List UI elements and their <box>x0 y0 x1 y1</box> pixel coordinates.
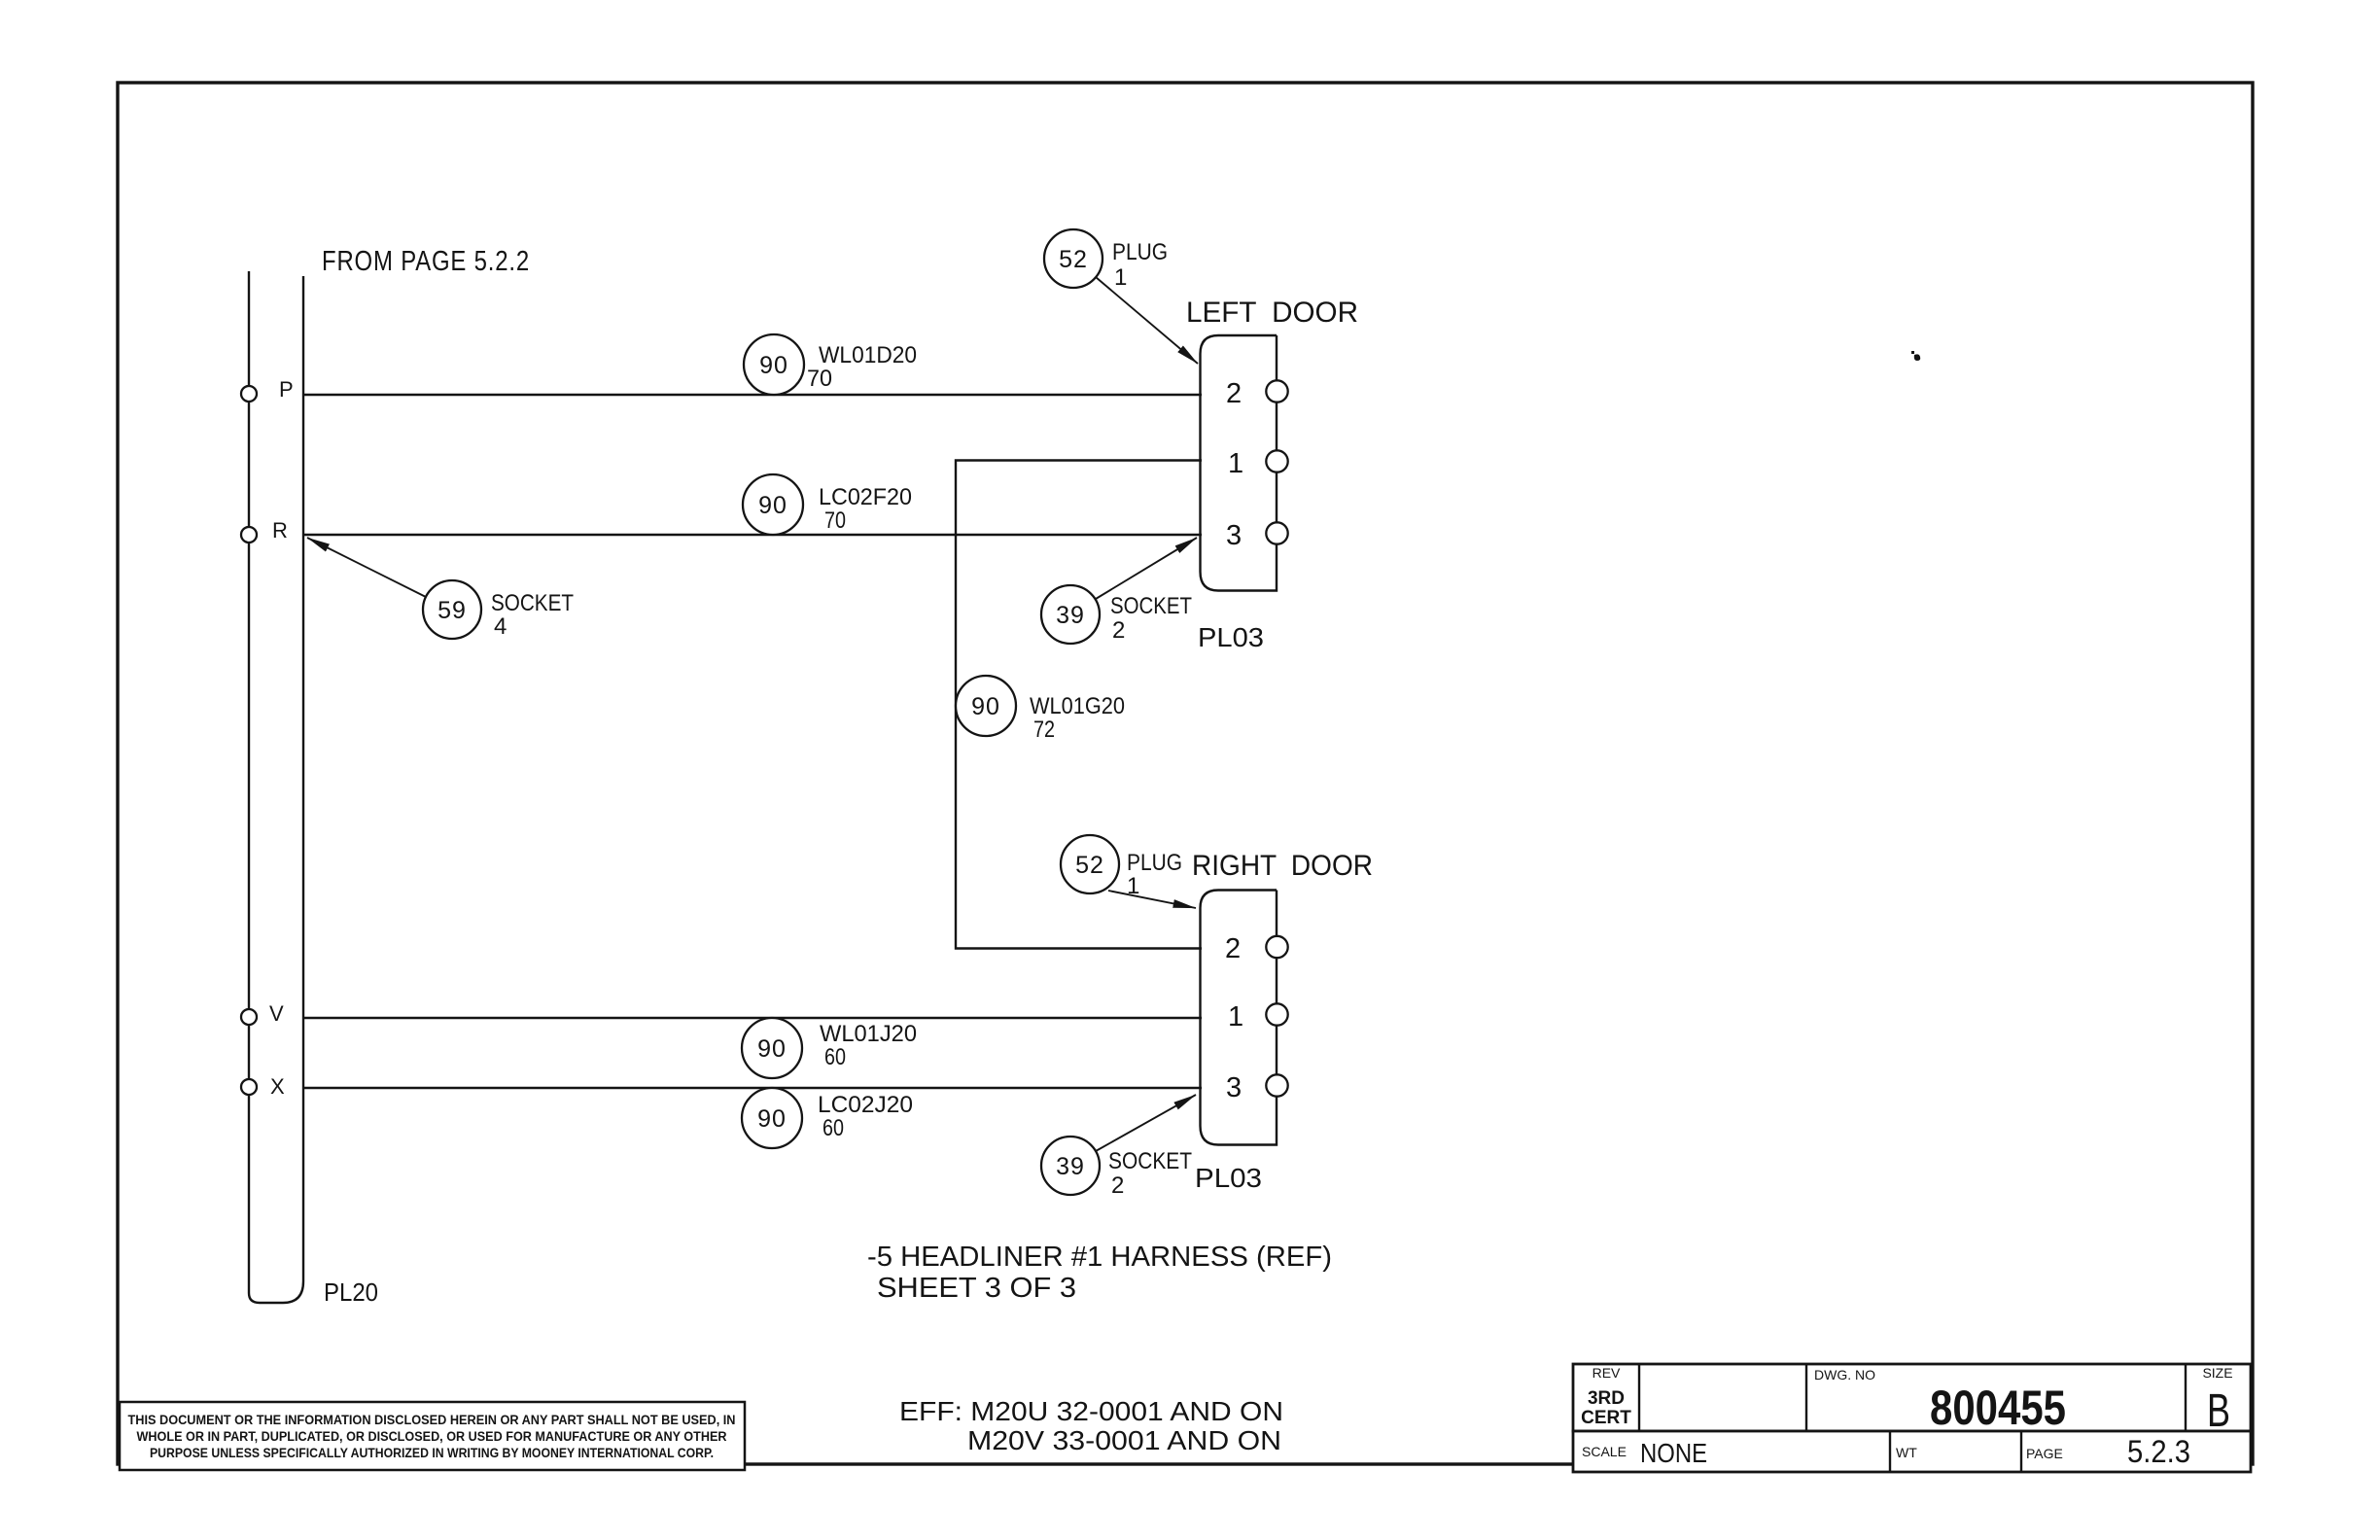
svg-text:70: 70 <box>807 366 832 392</box>
wire LC02F20 from R to left door pin 3 <box>303 534 1202 536</box>
scale/wt divider <box>1889 1431 1891 1472</box>
svg-text:5.2.3: 5.2.3 <box>2127 1434 2190 1469</box>
svg-text:PLUG: PLUG <box>1112 239 1168 265</box>
svg-text:4: 4 <box>494 613 507 640</box>
leader arrow 59 <box>307 538 426 597</box>
svg-text:WL01G20: WL01G20 <box>1030 693 1125 719</box>
callout 52 PLUG 1 (right door) with leader arrow <box>1061 835 1119 893</box>
svg-text:R: R <box>272 518 288 542</box>
svg-text:SCALE: SCALE <box>1582 1444 1627 1459</box>
svg-text:THIS DOCUMENT OR THE INFORMATI: THIS DOCUMENT OR THE INFORMATION DISCLOS… <box>128 1413 736 1427</box>
connector PL03 left door body <box>1201 335 1277 591</box>
size cell divider <box>2185 1364 2187 1431</box>
wire WL01J20 from V to right door pin 1 <box>303 1017 1202 1019</box>
right door pin 1 circle <box>1266 1003 1287 1025</box>
svg-text:2: 2 <box>1225 933 1241 964</box>
svg-text:72: 72 <box>1033 717 1055 743</box>
svg-text:52: 52 <box>1075 852 1104 879</box>
svg-text:NONE: NONE <box>1640 1438 1707 1468</box>
svg-text:SOCKET: SOCKET <box>1108 1148 1192 1174</box>
callout 39 SOCKET 2 (right door) with leader arrow to pin 3 <box>1041 1137 1100 1195</box>
svg-text:90: 90 <box>971 693 1000 720</box>
left door pin 3 circle <box>1266 522 1287 543</box>
dwg no cell divider <box>1805 1364 1807 1431</box>
svg-text:DWG. NO: DWG. NO <box>1814 1367 1875 1382</box>
callout 59 SOCKET 4 with leader arrow to R wire <box>423 580 481 639</box>
svg-text:PAGE: PAGE <box>2026 1446 2063 1461</box>
wire WL01G20 from left door pin 1 to right door pin 2 <box>956 461 1202 949</box>
svg-text:90: 90 <box>758 492 787 519</box>
svg-text:V: V <box>269 1001 284 1026</box>
leader arrow 52 left <box>1096 277 1198 364</box>
svg-text:2: 2 <box>1111 1172 1124 1199</box>
right door pin 2 circle <box>1266 936 1287 958</box>
svg-text:PL03: PL03 <box>1195 1163 1262 1193</box>
svg-text:39: 39 <box>1056 1153 1085 1180</box>
right door pin 3 circle <box>1266 1074 1287 1096</box>
callout circle 90 on wire WL01D20 <box>744 334 804 395</box>
left door pin 1 circle <box>1266 450 1287 472</box>
svg-text:PURPOSE UNLESS SPECIFICALLY AU: PURPOSE UNLESS SPECIFICALLY AUTHORIZED I… <box>150 1446 714 1460</box>
terminal X circle <box>241 1079 257 1095</box>
connector PL20 body <box>249 271 303 1303</box>
svg-text:90: 90 <box>759 352 788 379</box>
wt/page divider <box>2020 1431 2022 1472</box>
svg-text:SOCKET: SOCKET <box>491 590 574 616</box>
svg-text:PL20: PL20 <box>324 1277 378 1307</box>
svg-text:1: 1 <box>1228 1001 1243 1032</box>
svg-text:52: 52 <box>1059 246 1088 273</box>
svg-text:LC02J20: LC02J20 <box>818 1092 913 1118</box>
disclaimer box <box>120 1402 745 1470</box>
callout circle 90 on wire WL01G20 <box>956 676 1016 736</box>
svg-text:M20V 33-0001 AND ON: M20V 33-0001 AND ON <box>967 1425 1281 1455</box>
svg-text:SIZE: SIZE <box>2202 1365 2232 1381</box>
terminal V circle <box>241 1009 257 1025</box>
svg-text:1: 1 <box>1228 448 1243 479</box>
stray scan speck <box>1911 351 1920 361</box>
svg-text:800455: 800455 <box>1930 1381 2066 1435</box>
wire LC02J20 from X to right door pin 3 <box>303 1087 1202 1089</box>
svg-text:1: 1 <box>1114 264 1127 291</box>
svg-text:EFF: M20U 32-0001 AND ON: EFF: M20U 32-0001 AND ON <box>899 1396 1283 1426</box>
svg-text:59: 59 <box>437 597 467 624</box>
svg-text:REV: REV <box>1592 1365 1621 1381</box>
svg-text:60: 60 <box>824 1044 846 1070</box>
callout circle 90 on wire LC02J20 <box>742 1088 802 1148</box>
svg-text:LC02F20: LC02F20 <box>819 484 912 510</box>
left door pin 2 circle <box>1266 380 1287 402</box>
callout circle 90 on wire LC02F20 <box>743 474 803 535</box>
svg-text:SHEET 3 OF 3: SHEET 3 OF 3 <box>877 1273 1076 1304</box>
svg-text:B: B <box>2207 1385 2230 1437</box>
svg-text:70: 70 <box>824 507 846 534</box>
svg-text:39: 39 <box>1056 602 1085 629</box>
svg-text:2: 2 <box>1112 617 1125 644</box>
wire WL01D20 from P to left door pin 2 <box>303 394 1202 396</box>
svg-text:FROM PAGE 5.2.2: FROM PAGE 5.2.2 <box>322 246 530 277</box>
svg-text:90: 90 <box>757 1105 787 1133</box>
connector PL03 right door body <box>1201 891 1277 1145</box>
leader arrow 39 left <box>1096 538 1197 599</box>
svg-text:3: 3 <box>1226 1072 1242 1103</box>
callout 52 PLUG 1 (left door) with leader arrow <box>1044 229 1102 288</box>
svg-text:WHOLE OR IN PART, DUPLICATED,: WHOLE OR IN PART, DUPLICATED, OR DISCLOS… <box>137 1429 727 1444</box>
callout 39 SOCKET 2 (left door) with leader arrow to pin 3 <box>1041 585 1100 644</box>
svg-text:RIGHT DOOR: RIGHT DOOR <box>1192 850 1373 882</box>
leader arrow 52 right <box>1108 891 1196 908</box>
svg-text:PL03: PL03 <box>1198 622 1264 652</box>
callout circle 90 on wire WL01J20 <box>742 1018 802 1078</box>
terminal P circle <box>241 386 257 402</box>
svg-text:60: 60 <box>822 1115 844 1141</box>
svg-text:SOCKET: SOCKET <box>1110 593 1192 619</box>
svg-text:WL01J20: WL01J20 <box>820 1021 917 1047</box>
svg-text:3: 3 <box>1226 520 1242 551</box>
svg-text:-5 HEADLINER #1 HARNESS (REF): -5 HEADLINER #1 HARNESS (REF) <box>867 1242 1332 1273</box>
title block <box>1573 1364 2251 1472</box>
svg-text:90: 90 <box>757 1035 787 1063</box>
rev cell divider <box>1638 1364 1640 1431</box>
svg-text:X: X <box>270 1074 285 1099</box>
svg-text:WT: WT <box>1896 1445 1917 1460</box>
svg-text:CERT: CERT <box>1581 1408 1631 1428</box>
svg-text:LEFT DOOR: LEFT DOOR <box>1186 297 1358 329</box>
svg-text:P: P <box>279 377 294 402</box>
svg-text:3RD: 3RD <box>1588 1388 1625 1409</box>
svg-text:2: 2 <box>1226 378 1242 409</box>
svg-text:PLUG: PLUG <box>1127 850 1182 876</box>
svg-text:WL01D20: WL01D20 <box>819 342 917 368</box>
leader arrow 39 right <box>1096 1095 1196 1151</box>
terminal R circle <box>241 527 257 542</box>
